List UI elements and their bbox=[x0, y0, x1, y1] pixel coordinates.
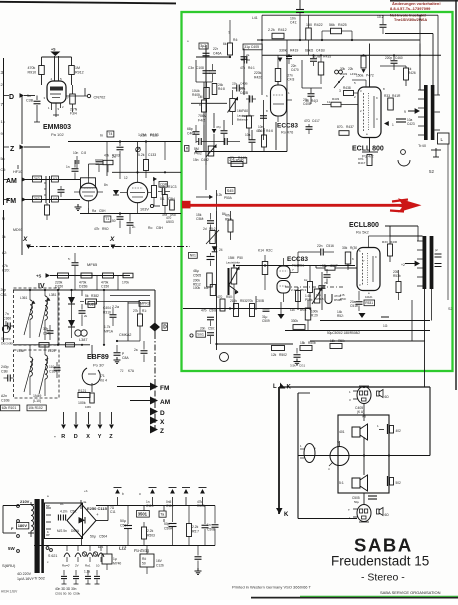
ground bottom channel bbox=[359, 313, 366, 318]
wire node D vertical bbox=[21, 96, 23, 145]
svg-text:C41B: C41B bbox=[316, 49, 325, 53]
svg-text:C8A: C8A bbox=[122, 356, 129, 360]
svg-text:R9Ω: R9Ω bbox=[102, 227, 109, 231]
svg-text:478: 478 bbox=[162, 213, 167, 217]
svg-text:-: - bbox=[54, 434, 56, 440]
svg-text:150: 150 bbox=[306, 23, 312, 27]
svg-text:C133: C133 bbox=[148, 153, 156, 157]
svg-text:S 621: S 621 bbox=[48, 554, 57, 558]
wire riser x300 bbox=[299, 15, 301, 40]
transformer Tr502 primary winding bbox=[31, 505, 34, 531]
svg-text:U4: U4 bbox=[53, 197, 58, 201]
svg-text:R33: R33 bbox=[382, 240, 388, 244]
cap C403 bbox=[193, 131, 200, 133]
ECLL800 anode lead bbox=[369, 44, 371, 88]
tuner rail dots bbox=[119, 140, 121, 142]
svg-text:ECLL 800: ECLL 800 bbox=[352, 146, 384, 153]
svg-text:47k: 47k bbox=[240, 66, 246, 70]
resistor R382 bbox=[86, 299, 97, 304]
svg-text:C5H: C5H bbox=[156, 226, 163, 230]
coil L125 bbox=[45, 355, 47, 379]
amp bus A bbox=[257, 39, 420, 41]
pot P472 bbox=[361, 56, 366, 68]
tube V2 oscillator envelope bbox=[127, 182, 147, 202]
bus y330 bottom bbox=[285, 330, 430, 332]
svg-text:R438: R438 bbox=[343, 86, 351, 90]
cap top right bbox=[380, 24, 387, 26]
svg-text:12b: 12b bbox=[290, 308, 295, 312]
svg-text:C3:: C3: bbox=[1, 168, 6, 172]
svg-text:R425: R425 bbox=[338, 23, 347, 27]
svg-text:C509: C509 bbox=[262, 319, 270, 323]
svg-text:5M: 5M bbox=[194, 147, 199, 151]
svg-text:47p: 47p bbox=[216, 125, 221, 129]
svg-text:DF: DF bbox=[60, 502, 64, 506]
svg-text:M740: M740 bbox=[113, 562, 121, 566]
svg-text:X: X bbox=[86, 434, 90, 440]
resistor R520 bbox=[262, 262, 268, 275]
bridge lower connection bbox=[81, 537, 83, 546]
speaker inner box bbox=[338, 415, 389, 493]
svg-text:Pa 102: Pa 102 bbox=[51, 132, 64, 137]
coil L387 bbox=[75, 330, 81, 336]
svg-text:402: 402 bbox=[396, 429, 402, 433]
svg-text:2.2m: 2.2m bbox=[140, 134, 147, 138]
svg-text:MP1A: MP1A bbox=[104, 330, 114, 334]
diode column bbox=[212, 129, 217, 134]
node Sn1 box bbox=[190, 334, 193, 337]
box MPR3 bbox=[139, 301, 150, 307]
svg-text:D15B: D15B bbox=[79, 285, 88, 289]
svg-text:10k R102: 10k R102 bbox=[28, 406, 43, 410]
svg-text:C470: C470 bbox=[291, 68, 299, 72]
IF top bus bbox=[13, 289, 155, 291]
svg-text:R4:8: R4:8 bbox=[218, 87, 225, 91]
svg-text:R1:: R1: bbox=[142, 309, 147, 313]
svg-text:C3n: C3n bbox=[188, 66, 194, 70]
bottom rule line bbox=[251, 597, 458, 599]
svg-text:EBF89: EBF89 bbox=[87, 354, 109, 361]
svg-text:8.8.4.57-Ts.-17397099: 8.8.4.57-Ts.-17397099 bbox=[390, 6, 431, 11]
AM row wire bbox=[22, 179, 80, 181]
ECLL800 inner structure bbox=[363, 93, 365, 131]
svg-text:R910: R910 bbox=[28, 71, 37, 75]
svg-text:.71: .71 bbox=[100, 374, 105, 378]
ground bottom ecc bbox=[278, 314, 285, 319]
switch contact U1 bbox=[52, 176, 59, 182]
resistor R502 bl bbox=[272, 346, 285, 351]
svg-text:Fu-Erdg: Fu-Erdg bbox=[134, 548, 150, 553]
wire x287 extension bbox=[286, 60, 288, 152]
selector oval bbox=[304, 444, 315, 463]
box 3501 bbox=[137, 511, 150, 518]
svg-text:C113: C113 bbox=[146, 504, 154, 508]
resistor R507 bbox=[187, 524, 192, 537]
pot P502 bbox=[210, 231, 216, 244]
svg-text:220k: 220k bbox=[254, 71, 262, 75]
svg-text:U1: U1 bbox=[53, 177, 58, 181]
selector circle bbox=[330, 447, 349, 466]
svg-text:C50B: C50B bbox=[209, 309, 218, 313]
svg-text:48μ: 48μ bbox=[193, 269, 199, 273]
svg-text:MF65: MF65 bbox=[87, 262, 98, 267]
svg-text:R53b: R53b bbox=[393, 274, 401, 278]
IF can over V1 bbox=[81, 178, 96, 188]
svg-text:C41:: C41: bbox=[290, 21, 297, 25]
Tr40 winding stubs bbox=[418, 89, 424, 91]
svg-text:Ra1: Ra1 bbox=[85, 564, 91, 568]
resistor R4a bbox=[228, 43, 233, 55]
svg-text:Ra=0': Ra=0' bbox=[62, 564, 70, 568]
chassis arrow 1 bbox=[117, 497, 119, 506]
svg-text:A2n: A2n bbox=[1, 394, 7, 398]
svg-text:1n: 1n bbox=[66, 165, 70, 169]
svg-text:7n: 7n bbox=[5, 312, 9, 316]
wire bottom jack row bbox=[298, 518, 357, 520]
svg-text:SABA SERVICE ORGANISATION: SABA SERVICE ORGANISATION bbox=[380, 590, 441, 595]
svg-text:502: 502 bbox=[396, 481, 402, 485]
cap C8A with ground bbox=[116, 345, 118, 352]
svg-text:D: D bbox=[160, 410, 165, 417]
resistor R425 bbox=[331, 28, 342, 34]
IF shield box 2 bbox=[14, 350, 60, 398]
caps on rail bbox=[119, 142, 121, 147]
resistor below ECC83 bbox=[262, 135, 267, 147]
speaker icon top jack bbox=[377, 391, 380, 396]
IF extra resistor bbox=[66, 343, 75, 347]
resistor R53b bbox=[396, 282, 401, 293]
svg-text:1Ωb: 1Ωb bbox=[242, 114, 248, 118]
svg-text:P5:2: P5:2 bbox=[209, 227, 216, 231]
wire y103 link bbox=[191, 102, 227, 104]
amp wire x244 bbox=[243, 49, 245, 96]
terminal X drop bbox=[88, 412, 90, 424]
svg-text:3.5k: 3.5k bbox=[290, 364, 296, 368]
resistor R235 bbox=[103, 273, 114, 278]
cap C505 spk bbox=[368, 495, 377, 497]
svg-text:5P: 5P bbox=[46, 504, 50, 508]
svg-text:220p: 220p bbox=[385, 56, 392, 60]
terminal Y drop bbox=[99, 412, 101, 424]
svg-text:12: 12 bbox=[124, 176, 128, 180]
red arrow tail block bbox=[182, 201, 191, 209]
bus y310 bottom strip bbox=[183, 308, 310, 310]
svg-text:1M9: 1M9 bbox=[85, 405, 91, 409]
resistor R121 bbox=[78, 393, 90, 398]
svg-text:C:8: C:8 bbox=[81, 151, 86, 155]
wire y341 link left bbox=[117, 340, 140, 342]
pot F402 bbox=[208, 146, 214, 156]
svg-text:R912: R912 bbox=[75, 71, 84, 75]
resistor R438 bbox=[344, 91, 354, 96]
svg-text:2a: 2a bbox=[134, 348, 138, 352]
vertical risers IF bbox=[57, 290, 59, 345]
resistor R418 pair bbox=[388, 98, 394, 110]
svg-text:Decoder: Decoder bbox=[1, 342, 14, 346]
svg-text:R505: R505 bbox=[197, 504, 205, 508]
sheet right edge line bbox=[455, 0, 457, 390]
component M740 bbox=[102, 554, 112, 564]
svg-text:SABA: SABA bbox=[354, 535, 413, 556]
svg-text:Z: Z bbox=[10, 146, 15, 153]
bus y150 top channel bbox=[196, 151, 287, 153]
svg-text:L381: L381 bbox=[49, 293, 57, 297]
tuner extra cap2 bbox=[127, 222, 134, 224]
svg-text:T1: T1 bbox=[105, 217, 109, 221]
svg-text:R121: R121 bbox=[78, 389, 86, 393]
svg-text:50μ: 50μ bbox=[164, 522, 170, 526]
red arrow head stroke upper bbox=[392, 200, 408, 202]
svg-text:P50A: P50A bbox=[224, 196, 233, 200]
amp wire x204 down bbox=[203, 125, 205, 152]
svg-text:68kΩ: 68kΩ bbox=[305, 49, 314, 53]
IF top bus extension dots bbox=[103, 344, 105, 346]
resistor R536 bbox=[388, 244, 393, 256]
svg-text:EMM803: EMM803 bbox=[43, 124, 71, 131]
indicator arrow above EMM803 bbox=[50, 52, 60, 57]
svg-text:170k: 170k bbox=[122, 281, 129, 285]
svg-text:R5:0: R5:0 bbox=[225, 218, 232, 222]
svg-text:R382: R382 bbox=[91, 294, 99, 298]
svg-text:Stereo: Stereo bbox=[1, 337, 11, 341]
svg-text:C360: C360 bbox=[3, 317, 11, 321]
bottom channel mesh bbox=[255, 296, 257, 310]
svg-text:Ra: Ra bbox=[92, 209, 96, 213]
resistor 330k bottom bbox=[293, 325, 305, 330]
cap mid2 bbox=[221, 130, 228, 132]
svg-text:R52:: R52: bbox=[337, 314, 344, 318]
svg-text:P50: P50 bbox=[237, 256, 243, 260]
wire left spine top channel bbox=[205, 45, 207, 165]
tube ECC83 bottom section B bbox=[277, 281, 290, 294]
left spine mid bbox=[205, 165, 207, 190]
svg-text:7b: 7b bbox=[324, 281, 328, 285]
wire plate bottom ecc bbox=[297, 252, 299, 273]
right edge riser bbox=[447, 144, 449, 300]
svg-text:20p: 20p bbox=[1, 288, 7, 292]
resistor R531 box bbox=[364, 300, 375, 306]
svg-text:R: R bbox=[61, 434, 65, 440]
resistor on rail bbox=[144, 160, 149, 171]
wire y341 right segment bbox=[310, 340, 425, 342]
svg-text:330k: 330k bbox=[291, 319, 298, 323]
svg-text:MD91: MD91 bbox=[13, 228, 23, 232]
volume pot P50 bbox=[231, 268, 237, 284]
electrolytic C50A bbox=[172, 506, 174, 523]
tube ECC83 top half envelope bbox=[271, 85, 287, 116]
chassis dash-dot line bbox=[27, 246, 190, 248]
cap C516 bbox=[320, 249, 322, 256]
terminal AM node bbox=[150, 397, 158, 405]
terminal K bottom bbox=[276, 508, 283, 514]
svg-text:7J: 7J bbox=[120, 369, 124, 373]
speaker line 2 bbox=[297, 393, 299, 519]
svg-text:3: 3 bbox=[339, 89, 341, 93]
svg-text:68p: 68p bbox=[187, 127, 193, 131]
capacitor below switch bbox=[60, 186, 62, 189]
svg-text:Sn1: Sn1 bbox=[197, 332, 204, 336]
IF bus dots bbox=[29, 289, 31, 291]
svg-text:C504: C504 bbox=[99, 535, 107, 539]
output transformer Tr40 primary bar bbox=[424, 85, 428, 140]
svg-text:C46A: C46A bbox=[213, 52, 222, 56]
mid right vertical bbox=[389, 226, 391, 236]
svg-text:50μ: 50μ bbox=[354, 500, 359, 504]
terminal D2 node bbox=[150, 408, 158, 416]
svg-text:FM: FM bbox=[160, 385, 169, 392]
resistor R422 bbox=[306, 28, 312, 40]
svg-text:22k: 22k bbox=[348, 67, 354, 71]
svg-text:R4(3: R4(3 bbox=[311, 99, 318, 103]
svg-text:R412: R412 bbox=[278, 28, 287, 32]
terminal X node bbox=[150, 417, 158, 425]
svg-text:2a: 2a bbox=[246, 53, 250, 57]
svg-text:HF10: HF10 bbox=[13, 170, 22, 174]
svg-text:56k: 56k bbox=[329, 23, 335, 27]
svg-text:F3/4: F3/4 bbox=[70, 112, 77, 116]
svg-text:+S: +S bbox=[51, 48, 56, 52]
cap C5M bbox=[207, 220, 214, 222]
svg-text:P50b: P50b bbox=[305, 298, 313, 302]
resistor R3 on 345 rail bbox=[39, 343, 49, 347]
capacitor C340 bbox=[47, 330, 54, 332]
svg-text:D: D bbox=[9, 94, 14, 101]
svg-text:5:: 5: bbox=[68, 257, 71, 261]
wire to D bus bbox=[104, 289, 155, 291]
left bus wire lower bbox=[3, 210, 5, 342]
svg-text:R437: R437 bbox=[346, 125, 354, 129]
resistor R914 bbox=[70, 94, 76, 104]
U lamp symbol bbox=[325, 294, 332, 304]
svg-text:C12b: C12b bbox=[156, 564, 164, 568]
svg-text:47b: 47b bbox=[94, 227, 100, 231]
bottom caps row bbox=[63, 570, 65, 576]
wire FM feed bbox=[117, 386, 150, 388]
wire y341 bbox=[217, 343, 294, 345]
svg-text:6Ω: 6Ω bbox=[385, 395, 390, 399]
svg-text:X: X bbox=[109, 236, 115, 243]
svg-text:A2:: A2: bbox=[2, 251, 7, 255]
svg-text:4a: 4a bbox=[83, 500, 87, 504]
terminal bus chain segment bbox=[154, 333, 156, 430]
wire left bus stubs bbox=[4, 95, 10, 97]
svg-text:R502: R502 bbox=[279, 353, 287, 357]
wire riser x420 bbox=[419, 15, 421, 90]
chassis arrow 4 bbox=[185, 497, 187, 506]
svg-text:In: In bbox=[100, 134, 103, 138]
svg-text:5n: 5n bbox=[1, 157, 5, 161]
capacitor C38 bbox=[36, 96, 38, 101]
wire riser x262 bbox=[261, 15, 263, 95]
svg-text:50μ: 50μ bbox=[90, 535, 96, 539]
bottom tube grid res bbox=[325, 266, 335, 270]
ECLL800 bottom anode bbox=[368, 236, 370, 248]
cap near U2 bbox=[110, 314, 117, 316]
svg-text:5n: 5n bbox=[27, 94, 31, 98]
wire top feed rail bbox=[262, 14, 420, 16]
svg-text:R422: R422 bbox=[314, 23, 323, 27]
caps right of Tr50 bbox=[435, 253, 442, 255]
svg-text:1N49: 1N49 bbox=[33, 394, 41, 398]
svg-text:470: 470 bbox=[217, 295, 223, 299]
svg-text:2n: 2n bbox=[132, 225, 136, 229]
svg-text:E250 C115: E250 C115 bbox=[87, 506, 108, 511]
resistor R530 bbox=[345, 252, 351, 264]
resistor R417 bbox=[367, 155, 372, 166]
svg-text:(K A): (K A) bbox=[357, 410, 364, 414]
resistor R50c bl bbox=[330, 344, 342, 349]
wire riser x287 bbox=[286, 40, 288, 60]
left bottom components col bbox=[210, 285, 216, 296]
svg-text:X: X bbox=[160, 419, 165, 426]
vertical risers tuner bbox=[106, 142, 108, 161]
output transformer Tr50 secondary bar bbox=[430, 236, 434, 289]
svg-text:U50:: U50: bbox=[170, 213, 177, 217]
svg-text:C11: C11 bbox=[110, 510, 116, 514]
cap on x244 bbox=[241, 56, 248, 58]
elco C423 bbox=[396, 118, 406, 120]
svg-text:FM: FM bbox=[6, 198, 16, 205]
circle x symbols bbox=[82, 552, 86, 556]
chassis arrow 2 bbox=[152, 497, 154, 506]
svg-text:47Ω: 47Ω bbox=[304, 119, 311, 123]
svg-text:16V: 16V bbox=[156, 559, 163, 563]
svg-text:S2: S2 bbox=[448, 307, 452, 311]
top rail tuner bbox=[68, 141, 181, 143]
svg-text:2V: 2V bbox=[75, 564, 79, 568]
terminal D drop bbox=[75, 412, 77, 424]
svg-text:K: K bbox=[284, 512, 289, 518]
left column cap C404 bbox=[205, 45, 207, 52]
cap C41B bbox=[310, 58, 317, 60]
svg-text:R417: R417 bbox=[358, 161, 366, 165]
left column caps pair bbox=[203, 70, 210, 72]
tube ECLL800 top envelope bbox=[358, 87, 381, 138]
svg-text:1: 1 bbox=[392, 123, 394, 127]
resistor R912 bbox=[69, 66, 75, 75]
green highlight rectangle bbox=[182, 12, 453, 371]
transformer Tr502 core lamination bbox=[41, 499, 44, 573]
output transformer Tr50 primary bar bbox=[423, 236, 427, 289]
transformer Tr502 core bar bbox=[35, 499, 40, 573]
red arrow shaft bbox=[190, 204, 406, 207]
resistor R426 bbox=[404, 68, 409, 80]
svg-text:9: 9 bbox=[404, 110, 406, 114]
ECC83 bottom pins bbox=[283, 258, 285, 266]
svg-text:11: 11 bbox=[327, 100, 330, 104]
svg-text:b: b bbox=[122, 492, 124, 496]
box L right edge bbox=[438, 133, 450, 144]
bottom channel dots bbox=[264, 264, 266, 266]
gnd below V1 bbox=[77, 204, 79, 207]
svg-text:R4:6: R4:6 bbox=[266, 129, 273, 133]
switch contact U4 bbox=[52, 196, 59, 202]
svg-text:R4IR: R4IR bbox=[390, 240, 398, 244]
wire to D node bbox=[110, 295, 150, 297]
power wire bridge top bbox=[80, 500, 82, 509]
cap on y320 bbox=[381, 316, 389, 318]
svg-text:kΩ:: kΩ: bbox=[204, 286, 209, 290]
ECLL800 bottom grid wire bbox=[347, 264, 349, 268]
svg-text:IV: IV bbox=[38, 283, 45, 290]
svg-text:R50:: R50: bbox=[338, 339, 345, 343]
svg-text:FC21: FC21 bbox=[150, 134, 158, 138]
switch contact 242 bbox=[33, 176, 42, 182]
svg-text:2k: 2k bbox=[84, 314, 88, 318]
svg-text:1.7k: 1.7k bbox=[104, 325, 111, 329]
svg-text:2.2k: 2.2k bbox=[268, 28, 275, 32]
svg-text:C3B: C3B bbox=[26, 99, 34, 103]
